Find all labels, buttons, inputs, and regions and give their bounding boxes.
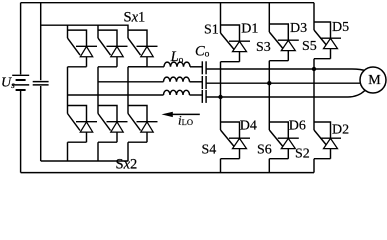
svg-text:D3: D3 (290, 21, 307, 36)
svg-text:S6: S6 (257, 143, 272, 158)
switch S6 (269, 122, 299, 159)
switch Sx2-c (128, 106, 158, 143)
svg-text:D2: D2 (332, 123, 349, 138)
wire: phase line 3 right segment to motor (206, 91, 365, 98)
svg-text:D4: D4 (240, 119, 257, 134)
junction dot leg C line 1 (312, 67, 316, 71)
switch S5 (314, 22, 341, 59)
wire: leg A vertical S1-S4 (220, 62, 222, 130)
wire: Sx2 bottom bus (41, 160, 128, 162)
inductor Lo line2 (164, 77, 190, 82)
wire: Sx1-b top lead (97, 25, 99, 38)
wire: leg C vertical S5-S2 (313, 59, 315, 130)
wire: phase line 3 left segment (68, 94, 164, 96)
wire: S4 bottom bar (221, 158, 240, 160)
svg-text:Sx1: Sx1 (124, 9, 146, 25)
capacitor C input (33, 82, 49, 85)
svg-text:D5: D5 (332, 20, 349, 35)
wire: Sx1-c bottom bar (128, 66, 147, 68)
wire: phase line 1 left segment (128, 66, 164, 68)
battery Us (12, 75, 29, 90)
switch S3 (269, 24, 299, 61)
svg-text:S2: S2 (295, 147, 310, 162)
svg-text:D6: D6 (289, 119, 306, 134)
svg-text:Co: Co (195, 43, 210, 59)
wire: source Us top lead (20, 3, 22, 75)
svg-text:D1: D1 (241, 22, 258, 37)
wire: S5 top lead (313, 3, 315, 30)
wire: S2 bottom bar (314, 158, 331, 160)
wire: phase line 1 right segment to motor (206, 69, 366, 71)
svg-text:M: M (368, 73, 381, 88)
wire: Sx1-a top lead (67, 25, 69, 38)
wire: left leg 3 midpoint (127, 67, 129, 114)
wire: S6 bottom lead (268, 159, 270, 173)
wire: Sx2-c bottom bar (128, 141, 147, 143)
switch S1 (221, 25, 251, 62)
svg-text:S3: S3 (256, 40, 271, 55)
wire: top DC rail from Us to S5 leg (21, 2, 314, 4)
wire: bottom rail (21, 172, 314, 174)
junction dot leg B line 2 (267, 81, 271, 85)
wire: S6 bottom bar (269, 158, 288, 160)
switch Sx1-b (98, 30, 128, 67)
switch Sx2-a (68, 106, 98, 143)
wire: S3 bottom bar (269, 60, 288, 62)
wire: Sx2-c bottom lead (127, 142, 129, 161)
switch Sx2-b (98, 106, 128, 143)
wire: phase line 2 left segment (98, 81, 164, 83)
wire: Sx2-b bottom bar (98, 141, 117, 143)
wire: Sx1 top bus (41, 25, 128, 38)
wire: input capacitor top lead (40, 3, 42, 81)
wire: line2 inductor to cap (190, 81, 203, 83)
inductor Lo line3 (164, 90, 190, 95)
svg-text:S4: S4 (202, 143, 217, 158)
wire: input capacitor bottom lead (40, 86, 42, 161)
wire: S1 top lead (220, 3, 222, 33)
junction dot leg A line 3 (218, 95, 222, 99)
switch Sx1-a (68, 30, 98, 67)
wire: line3 inductor to cap (190, 94, 203, 96)
wire: Us bottom lead (20, 91, 22, 173)
motor M (360, 67, 386, 93)
switch S2 (314, 122, 341, 159)
wire: Sx2-b bottom lead (97, 142, 99, 161)
wire: Sx1-b bottom bar (98, 66, 117, 68)
wire: Sx2-a bottom lead (67, 142, 69, 161)
switch Sx1-c (128, 30, 158, 67)
switch S4 (221, 122, 251, 159)
wire: Sx1-a bottom bar (68, 66, 87, 68)
svg-text:S5: S5 (302, 39, 317, 54)
svg-text:Sx2: Sx2 (116, 157, 138, 173)
svg-text:Us: Us (1, 76, 15, 92)
wire: S3 top lead (268, 3, 270, 32)
wire: S1 bottom bar (221, 61, 240, 63)
capacitor Co line2 (202, 76, 206, 89)
capacitor Co line1 (202, 61, 206, 74)
inductor Lo line1 (164, 62, 190, 67)
wire: S2 bottom lead (313, 159, 315, 173)
capacitor Co line3 (202, 90, 206, 103)
wire: left leg 1 midpoint (67, 67, 69, 114)
wire: left leg 2 midpoint (97, 67, 99, 114)
wire: S5 bottom bar (314, 58, 331, 60)
wire: S4 bottom lead (220, 159, 222, 173)
wire: Sx2-a bottom bar (68, 141, 87, 143)
svg-text:S1: S1 (204, 23, 219, 38)
wire: phase line 2 right segment to motor (206, 82, 360, 84)
wire: line1 inductor to cap (190, 66, 202, 68)
svg-text:Lo: Lo (170, 49, 184, 65)
arrow iLo current direction (162, 112, 200, 117)
wire: leg B vertical S3-S6 (268, 61, 270, 130)
